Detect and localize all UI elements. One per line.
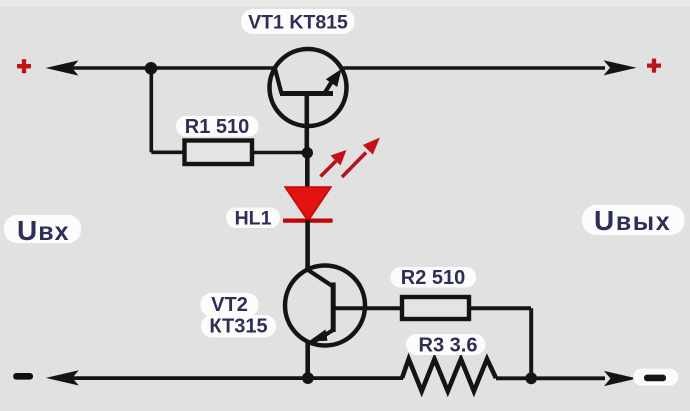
+ terminal output — [647, 59, 661, 73]
svg-text:КТ315: КТ315 — [209, 316, 267, 338]
light emission arrow large — [342, 138, 380, 178]
label R2 510 — [391, 267, 477, 289]
arrowhead bottom left — [46, 370, 79, 385]
svg-text:HL1: HL1 — [235, 208, 272, 230]
node VT2 emitter on rail — [302, 372, 314, 384]
label R3 3.6 — [406, 334, 486, 357]
svg-text:Uвых: Uвых — [594, 205, 671, 236]
junction node top — [145, 62, 158, 75]
arrowhead right (output +) — [604, 60, 637, 75]
minus terminal output — [633, 369, 678, 386]
label R1 510 — [176, 116, 259, 138]
resistor R3 zigzag — [402, 359, 496, 391]
svg-text:R3 3.6: R3 3.6 — [419, 335, 478, 357]
label VT1 KT815 — [241, 9, 355, 34]
label HL1 — [226, 208, 280, 230]
arrowhead bottom right — [604, 371, 637, 386]
node R2/R3 junction — [525, 372, 537, 384]
wire VT1 base lead — [304, 95, 309, 153]
wire R1 to node — [252, 151, 307, 155]
svg-text:R1 510: R1 510 — [185, 116, 250, 138]
wire VT2 base lead to R2 — [333, 306, 403, 310]
label KT315 — [201, 315, 276, 338]
wire to R1 left — [151, 151, 186, 155]
wire R2 to corner — [469, 306, 531, 310]
VT2 emitter arrowhead — [309, 330, 328, 342]
wire top rail right — [341, 66, 605, 70]
light emission arrow small — [321, 150, 347, 177]
transistor VT2 — [285, 266, 365, 346]
wire node to LED — [305, 153, 310, 189]
node R1/LED/base — [302, 147, 313, 158]
svg-text:R2 510: R2 510 — [401, 267, 466, 289]
transistor VT1 — [270, 49, 347, 126]
label VT2 — [201, 293, 259, 317]
resistor R2 — [402, 297, 469, 319]
wire corner down to rail — [529, 308, 533, 378]
resistor R1 — [185, 141, 253, 165]
label Uvyx — [582, 205, 685, 236]
svg-text:VT1 KT815: VT1 KT815 — [248, 12, 348, 34]
arrowhead left (input +) — [46, 60, 79, 75]
wire R1 branch vertical — [150, 68, 154, 152]
svg-text:VT2: VT2 — [211, 294, 248, 316]
minus terminal input — [13, 373, 33, 380]
LED HL1 — [283, 187, 333, 221]
wire LED to VT2 — [305, 220, 310, 271]
wire bottom rail right — [496, 376, 605, 380]
label Uvx — [4, 215, 81, 246]
svg-text:Uвх: Uвх — [17, 215, 70, 246]
wire top rail left — [60, 66, 275, 70]
+ terminal input — [17, 59, 31, 73]
VT1 emitter arrowhead — [326, 69, 342, 87]
wire VT2 emitter down — [305, 341, 310, 378]
wire bottom rail left — [60, 376, 403, 380]
